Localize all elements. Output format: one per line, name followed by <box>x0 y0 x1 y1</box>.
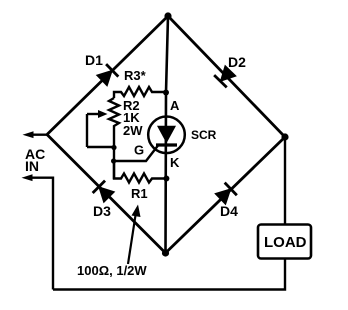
diode D3 <box>93 181 116 204</box>
diode D4 <box>214 183 237 206</box>
SCR cathode bar <box>156 143 177 146</box>
wire: right vertex down to LOAD <box>284 137 286 225</box>
node: bottom vertex <box>162 249 169 256</box>
LOAD box <box>258 225 311 259</box>
SCR gate lead <box>114 146 158 162</box>
wire: center vertical (top node through SCR to bottom node) <box>166 16 169 253</box>
svg-text:100Ω, 1/2W: 100Ω, 1/2W <box>77 263 147 278</box>
svg-text:A: A <box>170 98 180 113</box>
svg-text:K: K <box>170 155 180 170</box>
wire: bridge edge left-top (AC node to top node) <box>47 16 168 135</box>
resistor R2 (vertical zigzag, x=114 from y=98 to y=126) <box>109 98 119 179</box>
svg-text:2W: 2W <box>123 123 143 138</box>
wire: R3 rail (left corner down to R2 branch) with resistor R3 zigzag <box>114 87 166 98</box>
wire: upper AC lead with left arrowhead <box>29 133 47 135</box>
svg-text:IN: IN <box>25 158 39 174</box>
diode D1 <box>96 64 119 87</box>
SCR U1: circle <box>148 117 185 154</box>
node: R3-right junction on center line <box>163 90 169 96</box>
node: wiper loop junction <box>111 145 116 150</box>
svg-text:R1: R1 <box>131 186 148 201</box>
wire: wiper loop left vertical <box>86 114 88 147</box>
svg-text:D4: D4 <box>220 203 238 219</box>
svg-text:SCR: SCR <box>191 128 217 142</box>
svg-text:D1: D1 <box>85 52 103 68</box>
wire: bridge edge bottom-right (bottom node to right node) <box>166 137 286 253</box>
svg-text:G: G <box>134 143 144 158</box>
svg-text:D3: D3 <box>93 203 111 219</box>
wire: bottom return wire <box>53 259 285 290</box>
wire: bridge edge left-bottom (AC node to bottom node) <box>47 135 166 254</box>
node: right vertex <box>281 133 288 140</box>
wire: wiper loop bottom horizontal <box>87 146 114 148</box>
wire: R2 wiper arm with arrowhead pointing right <box>87 113 101 115</box>
wire: bridge edge top-right (top node to right node) <box>168 16 285 137</box>
resistor R1 (horizontal zigzag rail from x=114 to x=166 at y=178.5) <box>114 161 166 183</box>
annotation arrow for R1 value <box>128 212 136 264</box>
node: gate junction <box>111 158 116 163</box>
node: R1-right junction on center line <box>163 176 169 182</box>
node: top vertex <box>164 12 171 19</box>
SCR triangle (anode to cathode) <box>157 126 176 143</box>
svg-text:LOAD: LOAD <box>264 234 307 251</box>
wire: lower AC lead with left arrowhead, corner down <box>28 178 53 290</box>
svg-text:D2: D2 <box>228 54 246 70</box>
svg-text:R3*: R3* <box>124 68 147 83</box>
diode D2 <box>214 65 237 88</box>
